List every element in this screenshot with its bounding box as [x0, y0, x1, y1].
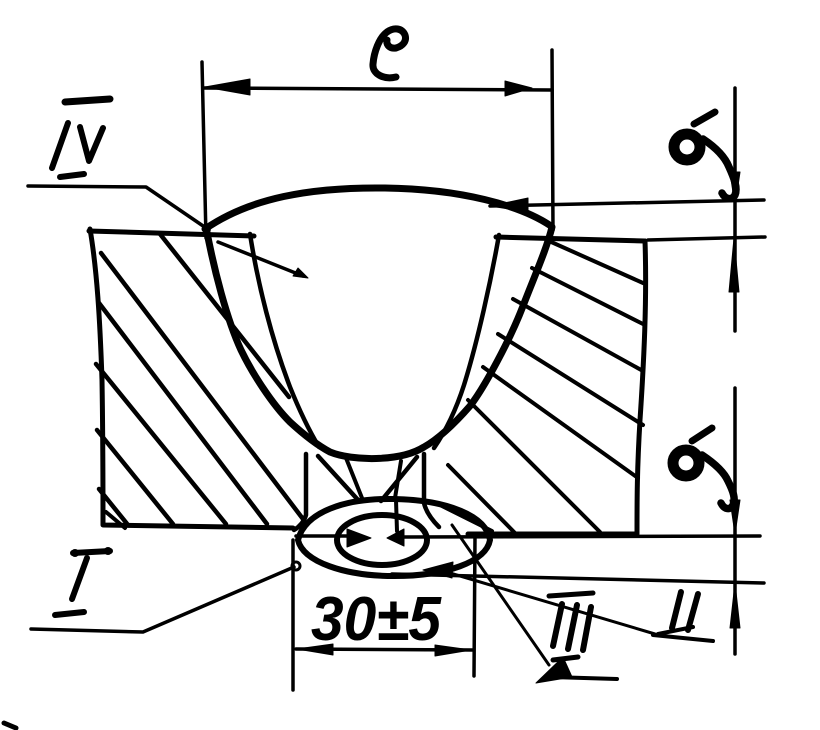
label III underline: [553, 657, 578, 660]
top g arrow lower: [729, 238, 739, 292]
leader IV inner segment: [218, 242, 303, 276]
label IV stroke I: [52, 123, 68, 168]
left plate hatch 7 corner: [106, 512, 125, 528]
left plate hatch 3: [99, 303, 267, 524]
dimension e arrow right: [505, 81, 532, 96]
right plate top edge: [496, 237, 645, 241]
right plate right edge: [637, 241, 646, 533]
leader II arrow: [423, 562, 453, 578]
neck line inner right: [395, 461, 401, 498]
leader I: [31, 567, 294, 632]
bottom surface extension line right: [404, 536, 760, 537]
label I top bar: [73, 551, 110, 553]
label IV overbar: [65, 99, 110, 102]
leader III foot: [551, 677, 617, 679]
bottom surface line left of bead: [296, 534, 348, 538]
weld cap dome: [205, 188, 551, 229]
right plate hatch 7: [448, 465, 515, 533]
label g bottom tick: [692, 428, 712, 441]
left plate top edge: [89, 231, 254, 236]
neck line outer right: [381, 457, 417, 501]
neck line outer left: [318, 456, 359, 501]
leader II line: [450, 573, 655, 634]
left plate hatch 2: [101, 253, 303, 519]
right plate hatch 2: [532, 268, 643, 324]
right plate hatch 1: [549, 241, 643, 283]
label g top loop: [674, 134, 700, 160]
right plate hatch 4: [498, 334, 643, 425]
left plate hatch 6: [99, 489, 128, 525]
right plate hatch 5: [483, 367, 638, 478]
top g reference line lower: [648, 237, 765, 240]
label II stroke 2: [688, 594, 698, 630]
page edge mark bottom left: [4, 723, 16, 728]
label I underline: [55, 612, 84, 615]
label g bottom loop: [673, 450, 699, 476]
neck line inner left: [346, 458, 362, 498]
label g top tick: [694, 112, 715, 124]
top g dimension line: [733, 88, 737, 331]
left plate hatch 5: [97, 430, 173, 524]
label e: [373, 29, 406, 78]
label g bottom tail: [702, 455, 734, 509]
label IV stroke V: [80, 127, 103, 161]
svg-text:30±5: 30±5: [311, 585, 442, 654]
label I stem: [72, 558, 87, 599]
label g top tail: [703, 139, 736, 199]
root tangent extension line: [392, 574, 764, 583]
right plate hatch 3: [513, 299, 643, 371]
top g reference line upper: [490, 200, 764, 206]
label II underline: [658, 627, 693, 634]
bottom g dimension line: [733, 388, 737, 654]
label III overbar: [549, 593, 593, 596]
leader IV inner arrow: [293, 268, 308, 278]
dimension 30 arrow right: [435, 645, 471, 656]
leader IV: [28, 186, 209, 230]
dimension 30 arrow left: [297, 644, 333, 655]
left plate hatch 1: [160, 234, 289, 397]
leader I end circle: [292, 562, 300, 570]
leader III line: [452, 525, 549, 665]
dimension e extension line right: [552, 50, 553, 230]
top g arrow upper: [730, 172, 740, 206]
dimension e extension line left: [202, 62, 206, 238]
label III stroke 1: [553, 604, 562, 646]
label IV underline: [60, 174, 84, 177]
left plate outline: [90, 229, 293, 528]
left plate bevel line: [250, 234, 319, 447]
leader III arrow: [536, 657, 572, 683]
dimension e arrow left: [205, 79, 250, 95]
dimension e line: [204, 88, 552, 90]
left root groove edge: [294, 454, 306, 530]
right plate hatch 8 corner: [440, 505, 492, 531]
label III stroke 3: [583, 607, 591, 650]
left plate hatch 4: [96, 364, 226, 524]
dimension 30 extension line right: [474, 537, 475, 676]
leader II foot: [653, 635, 713, 641]
root bead outer oval: [298, 499, 490, 576]
right plate bevel line: [434, 235, 499, 448]
label III stroke 2: [568, 605, 577, 649]
bottom g arrow lower: [730, 583, 740, 628]
fusion boundary parabola: [206, 227, 552, 459]
bottom g arrow upper: [730, 500, 740, 534]
right plate hatch 6: [468, 400, 600, 532]
right plate bottom edge: [468, 532, 637, 537]
dimension 30 line: [296, 649, 473, 650]
root bead inner oval: [337, 515, 427, 565]
right root groove edge: [424, 454, 439, 527]
root gap arrow right: [387, 529, 404, 546]
label II stroke 1: [672, 592, 681, 628]
root gap arrow left: [347, 529, 371, 547]
neck center stub: [396, 500, 397, 531]
top g reference arrow: [490, 198, 528, 212]
dimension 30 extension line left: [291, 540, 295, 690]
